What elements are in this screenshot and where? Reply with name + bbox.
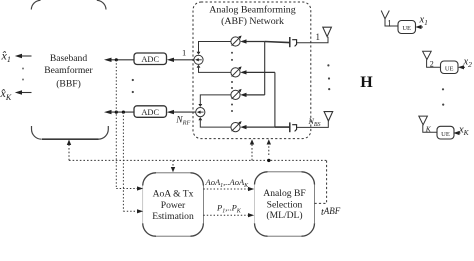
wire xhat1 arrow [15, 54, 32, 58]
UEK antenna [419, 116, 437, 132]
ADC A1 [134, 53, 167, 65]
dots between PS3 PS4 [231, 104, 233, 113]
wire into PS3 [240, 93, 265, 97]
summing node S2 [196, 104, 205, 120]
wire sum1 top to PS1 row [199, 42, 231, 55]
amplifier LNA2 [290, 122, 297, 132]
wire crossbar PS2 to antennaN [274, 72, 276, 127]
svg-text:Analog Beamforming: Analog Beamforming [209, 5, 295, 16]
ABF network dashed box [193, 2, 311, 139]
svg-text:ADC: ADC [141, 108, 159, 117]
label ABF network title [209, 5, 295, 27]
UE1 antenna [381, 11, 398, 27]
phase shifter PS2 [231, 66, 242, 77]
svg-text:AoA & Tx: AoA & Tx [153, 189, 194, 200]
wire ADC1 to BBF [104, 58, 134, 62]
wire dotted feedback main horizontal [69, 159, 327, 161]
svg-text:K: K [425, 125, 432, 134]
wire LNA1 to antenna1 [297, 37, 328, 43]
node junction feedback [267, 159, 270, 162]
node junction J2 [115, 111, 118, 114]
svg-text:(BBF): (BBF) [56, 78, 81, 89]
dots between xhat outputs [22, 68, 24, 81]
wire dotted branch down into AoA box top [171, 160, 175, 172]
wire sum1 to ADC1 [167, 58, 194, 62]
wire x2 into UE2 [458, 65, 465, 69]
wire x1 into UE1 [415, 25, 423, 29]
wire dotted branch up into ABF box at 268.8 [267, 139, 271, 155]
svg-text:2: 2 [430, 60, 434, 69]
svg-text:H: H [360, 74, 373, 91]
wire dotted feedback up into BBF [67, 140, 71, 161]
wire into PS1 [240, 39, 265, 43]
wire sum2 bottom to PS4 row [200, 118, 231, 127]
svg-text:ADC: ADC [141, 55, 159, 64]
wire sum2 to ADC2 [167, 110, 196, 114]
phase shifter PS1 [231, 36, 242, 47]
svg-text:Beamformer: Beamformer [44, 65, 93, 76]
svg-text:Analog BF: Analog BF [263, 188, 305, 199]
wire dotted branch up into ABF box at 252 [250, 139, 254, 160]
UEK box [437, 126, 454, 139]
phase shifter PS3 [231, 89, 242, 100]
wire sum1 bottom to PS2 row [199, 66, 231, 73]
wire dashed tABF output loop [315, 160, 327, 203]
summing node S1 [194, 52, 203, 68]
baseband beamformer U-BBF box [31, 0, 108, 139]
svg-text:Power: Power [161, 200, 186, 211]
UE1 box [398, 21, 416, 34]
wire dotted tap A from J1 down [115, 60, 117, 189]
wire dotted tap A into AoA box [116, 186, 143, 190]
ADC A2 [134, 106, 167, 118]
svg-text:Estimation: Estimation [152, 211, 194, 222]
wire xhatK arrow [15, 90, 32, 94]
svg-text:Baseband: Baseband [50, 53, 88, 64]
svg-text:Selection: Selection [267, 200, 303, 211]
wire into PS2 [240, 70, 275, 74]
wire sum2 top to PS3 row [200, 95, 231, 106]
dots between PS1 PS2 [231, 52, 233, 61]
svg-text:1: 1 [387, 19, 392, 29]
wire LNA2 to antennaN [297, 121, 328, 127]
wire xK into UEK [453, 131, 460, 135]
node xhat1 output label [1, 48, 11, 64]
svg-text:1: 1 [316, 32, 321, 42]
node xhatK output label [0, 86, 12, 102]
dots between PS2 PS3 [231, 81, 233, 89]
wire dotted tap B into AoA box [123, 209, 143, 213]
svg-text:(ML/DL): (ML/DL) [266, 210, 302, 221]
antenna ANT N_BS [324, 112, 333, 121]
wire row4 to LNA2 [275, 126, 289, 128]
wire dotted AoA to selection (AoA values) [203, 187, 254, 191]
analog BF selection box [255, 172, 315, 236]
UE2 box [441, 61, 459, 74]
node junction J1 [115, 58, 118, 61]
wire crossbar antenna1 to PS3 [264, 42, 266, 95]
dots between antennas [327, 64, 330, 90]
svg-text:UE: UE [441, 131, 450, 138]
wire ADC2 to BBF [104, 110, 134, 114]
dots between UE2 UEK [442, 88, 444, 105]
svg-text:(ABF) Network: (ABF) Network [221, 16, 284, 27]
wire into PS4 [240, 125, 275, 129]
svg-text:1: 1 [182, 48, 186, 58]
svg-text:UE: UE [445, 65, 454, 72]
antenna ANT1 [323, 27, 332, 36]
wire row1 to LNA1 [265, 42, 290, 43]
wire dotted tap B from J3 down [122, 112, 124, 211]
dots between ADCs [132, 79, 134, 93]
UE2 antenna [423, 51, 441, 67]
wire dotted AoA to selection (powers) [203, 213, 254, 217]
svg-text:UE: UE [402, 25, 411, 32]
amplifier LNA1 [290, 37, 297, 47]
AoA and Tx power estimation box [143, 173, 204, 236]
node junction J3 [122, 111, 125, 114]
phase shifter PS4 [231, 121, 242, 132]
